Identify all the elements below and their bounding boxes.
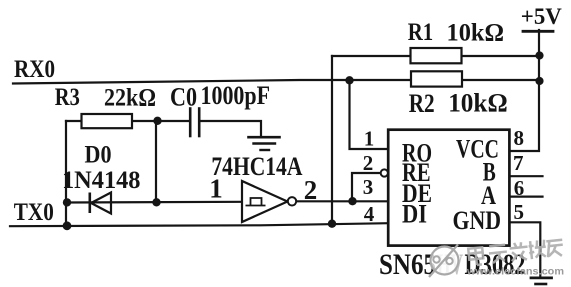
svg-text:2: 2 [304,175,318,205]
svg-text:+5V: +5V [521,4,562,29]
svg-text:6: 6 [514,176,525,200]
svg-text:www.elecfans.com: www.elecfans.com [466,266,564,278]
svg-text:D0: D0 [85,142,112,169]
svg-text:1: 1 [364,127,375,151]
svg-text:R1: R1 [408,19,434,46]
svg-text:RX0: RX0 [14,56,55,83]
svg-text:R2: R2 [409,89,435,118]
svg-text:4: 4 [364,202,375,226]
svg-text:1N4148: 1N4148 [62,167,141,194]
svg-text:10kΩ: 10kΩ [448,89,508,118]
svg-text:1: 1 [209,174,223,204]
svg-text:74HC14A: 74HC14A [211,152,302,181]
svg-text:GND: GND [453,206,502,235]
svg-text:C0: C0 [170,83,197,112]
svg-text:3: 3 [363,175,374,199]
svg-text:2: 2 [363,151,374,175]
svg-text:22kΩ: 22kΩ [104,85,156,112]
svg-text:SN65: SN65 [379,248,436,281]
svg-text:R3: R3 [55,84,80,111]
svg-text:8: 8 [514,126,525,150]
svg-text:7: 7 [513,151,524,175]
svg-text:TX0: TX0 [14,199,54,226]
svg-text:10kΩ: 10kΩ [447,20,505,47]
svg-text:5: 5 [514,200,525,224]
svg-text:1000pF: 1000pF [201,81,271,110]
svg-text:DI: DI [402,200,427,229]
